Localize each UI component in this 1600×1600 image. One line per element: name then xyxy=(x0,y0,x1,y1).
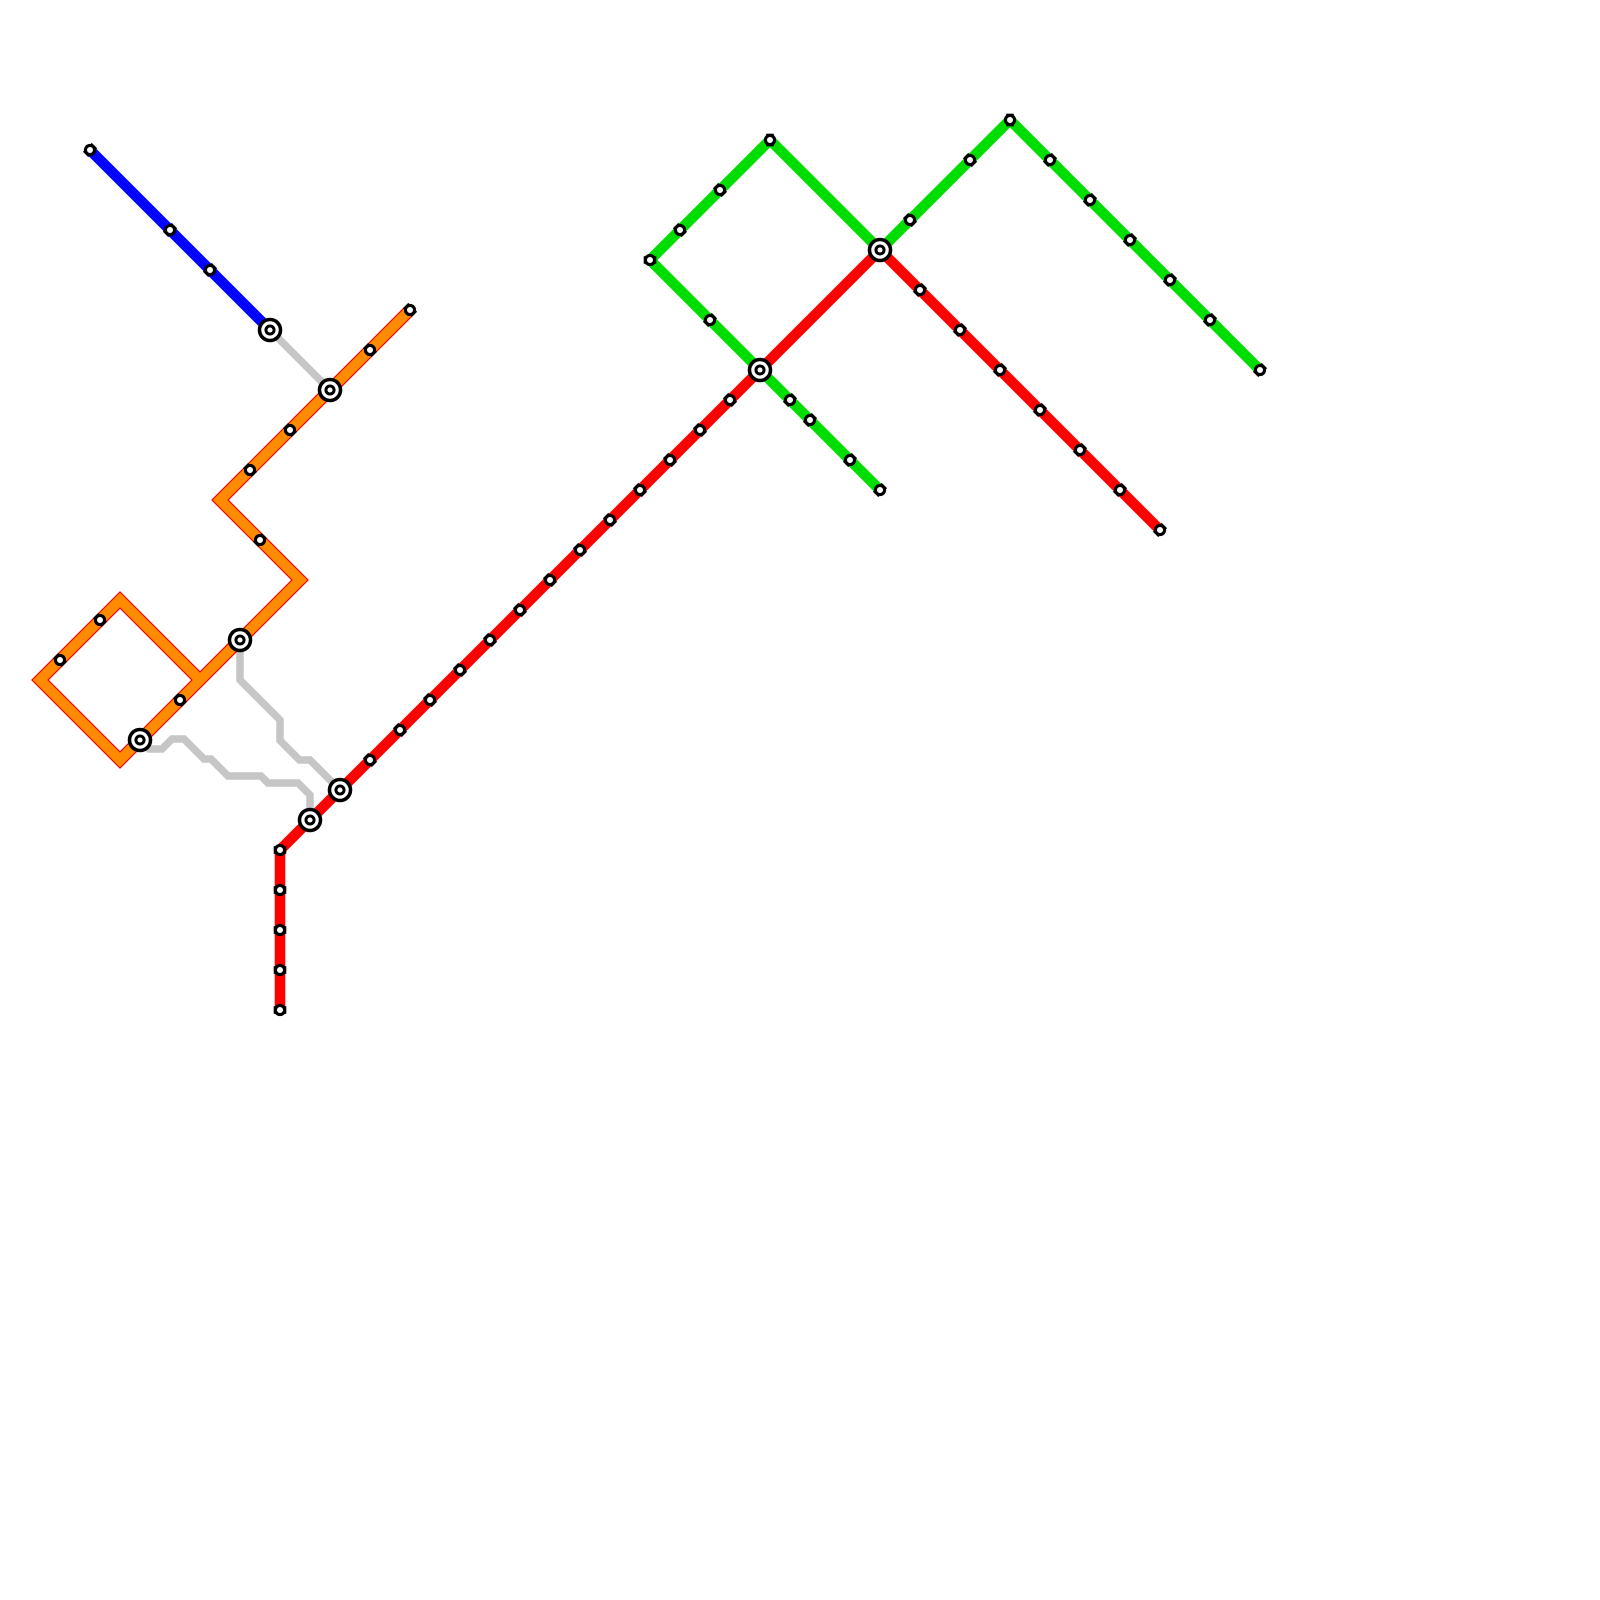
station (1040,410) xyxy=(1035,405,1044,414)
interchange station (760,370) green-red xyxy=(748,358,773,383)
station (250,470) xyxy=(245,465,254,474)
station (210,270) xyxy=(205,265,214,274)
station (1080,450) xyxy=(1075,445,1084,454)
station (290,430) xyxy=(285,425,294,434)
station (1120,490) xyxy=(1115,485,1124,494)
station (400,730) xyxy=(395,725,404,734)
orange line outline (red underlay) xyxy=(40,310,410,760)
station (1090,200) xyxy=(1085,195,1094,204)
station (1260,370) xyxy=(1255,365,1264,374)
station (910,220) xyxy=(905,215,914,224)
station (410,310) xyxy=(405,305,414,314)
station (170,230) xyxy=(165,225,174,234)
station (1050,160) xyxy=(1045,155,1054,164)
station (1130,240) xyxy=(1125,235,1134,244)
station (280,850) xyxy=(274,845,287,854)
station (60,660) xyxy=(55,655,64,664)
gray transfer corridor B (orange 140,740 to red 310,820) xyxy=(140,739,310,820)
station (650,260) xyxy=(644,255,657,264)
station (460,670) xyxy=(455,665,464,674)
station (790,400) xyxy=(785,395,794,404)
green line xyxy=(650,120,1260,490)
interchange station (340,790) red-gray xyxy=(328,778,353,803)
station (640,490) xyxy=(635,485,644,494)
station (1160,530) xyxy=(1155,525,1164,534)
station (700,430) xyxy=(695,425,704,434)
red line xyxy=(280,250,1160,1010)
station (1210,320) xyxy=(1205,315,1214,324)
station (550,580) xyxy=(545,575,554,584)
station (280,890) xyxy=(274,885,287,894)
gray transfer corridor A (orange 240,640 to red 340,790) xyxy=(240,640,340,790)
station (880,490) xyxy=(875,485,884,494)
station (430,700) xyxy=(425,695,434,704)
orange line core xyxy=(40,310,410,760)
interchange station (270,330) blue-gray xyxy=(258,318,283,343)
station (850,460) xyxy=(845,455,854,464)
station (1010,120) xyxy=(1005,114,1014,127)
station (730,400) xyxy=(725,395,734,404)
station (710,320) xyxy=(705,315,714,324)
station (670,460) xyxy=(665,455,674,464)
station (770,140) xyxy=(765,134,774,147)
station (370,760) xyxy=(365,755,374,764)
station (960,330) xyxy=(955,325,964,334)
station (1170,280) xyxy=(1165,275,1174,284)
station (610,520) xyxy=(605,515,614,524)
interchange station (310,820) red-gray xyxy=(298,808,323,833)
station (370,350) xyxy=(365,345,374,354)
station (280,1010) xyxy=(274,1005,287,1014)
station (720,190) xyxy=(715,185,724,194)
station (920,290) xyxy=(915,285,924,294)
blue line xyxy=(90,150,270,330)
station (520,610) xyxy=(515,605,524,614)
station (970,160) xyxy=(965,155,974,164)
station (180,700) xyxy=(175,695,184,704)
interchange station (240,640) orange-gray xyxy=(228,628,253,653)
station (680,230) xyxy=(675,225,684,234)
station (90,150) xyxy=(85,145,94,154)
station (1000,370) xyxy=(995,365,1004,374)
interchange station (880,250) green-red xyxy=(868,238,893,263)
gray transfer corridor C (blue interchange to orange interchange) xyxy=(270,330,330,390)
interchange station (140,740) orange-gray xyxy=(128,728,153,753)
station (280,970) xyxy=(274,965,287,974)
station (810,420) xyxy=(805,415,814,424)
station (100,620) xyxy=(95,615,104,624)
station (580,550) xyxy=(575,545,584,554)
station (490,640) xyxy=(485,635,494,644)
interchange station (330,390) orange-gray xyxy=(318,378,343,403)
station (260,540) xyxy=(255,535,264,544)
station (280,930) xyxy=(274,925,287,934)
